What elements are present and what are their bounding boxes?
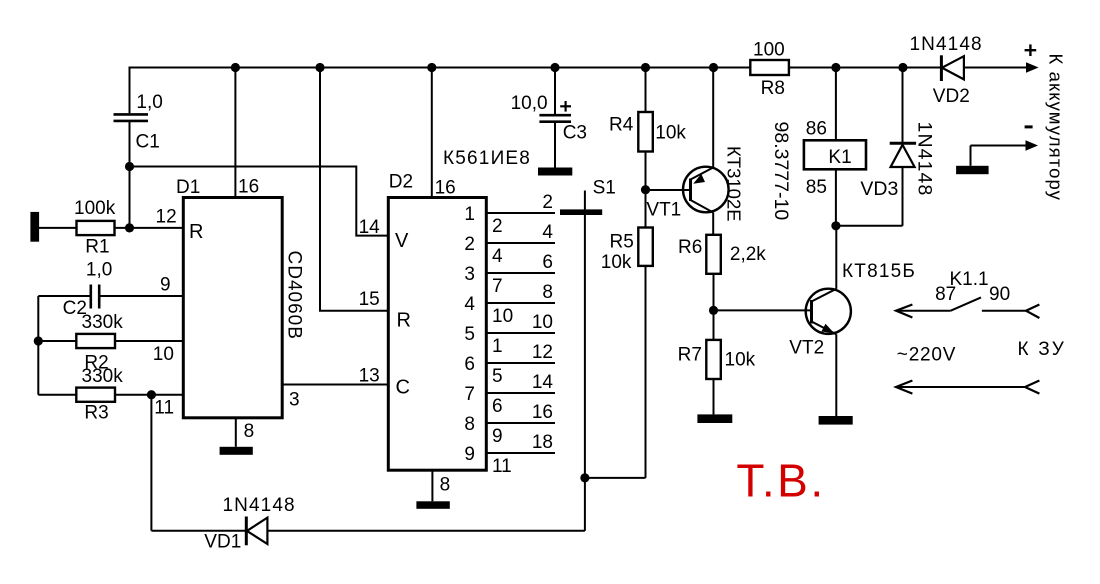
svg-text:S1: S1 bbox=[593, 178, 616, 199]
resistor R1 bbox=[74, 198, 116, 258]
node rail R4 bbox=[641, 63, 650, 72]
svg-text:R: R bbox=[397, 310, 411, 332]
resistor R5 bbox=[601, 228, 653, 478]
svg-text:8: 8 bbox=[440, 475, 451, 496]
wire top power rail bbox=[129, 67, 942, 69]
svg-text:10,0: 10,0 bbox=[511, 93, 548, 114]
resistor R7 bbox=[678, 340, 756, 415]
node rail C3 bbox=[550, 63, 559, 72]
svg-text:13: 13 bbox=[359, 366, 380, 387]
svg-text:10k: 10k bbox=[601, 252, 632, 273]
svg-text:VT2: VT2 bbox=[789, 338, 824, 359]
ground C3 bbox=[538, 168, 572, 176]
svg-text:КТ3102Е: КТ3102Е bbox=[724, 146, 745, 222]
node C1 bottom junction bbox=[125, 162, 134, 171]
svg-text:8: 8 bbox=[464, 414, 475, 435]
resistor R6 bbox=[678, 235, 766, 340]
svg-text:1: 1 bbox=[492, 336, 503, 357]
ground D1 pin 8 bbox=[220, 447, 253, 455]
resistor R4 bbox=[609, 68, 686, 228]
svg-text:1N4148: 1N4148 bbox=[910, 34, 983, 55]
svg-text:V: V bbox=[395, 230, 409, 252]
wire pin 11 down to VD1 bbox=[150, 395, 152, 531]
capacitor C3 bbox=[511, 68, 587, 168]
wire C1 junction to D2 pin 14 bbox=[130, 167, 389, 236]
svg-text:1: 1 bbox=[464, 204, 475, 225]
svg-text:2,2k: 2,2k bbox=[730, 244, 766, 265]
ground D2 pin 8 bbox=[416, 501, 449, 509]
output 2 pin 4 bbox=[486, 242, 555, 244]
wire D2 pin 16 bbox=[431, 68, 433, 198]
svg-text:9: 9 bbox=[464, 444, 475, 465]
svg-text:3: 3 bbox=[464, 264, 475, 285]
svg-text:D2: D2 bbox=[389, 172, 413, 193]
svg-text:4: 4 bbox=[492, 246, 503, 267]
node rail pin16 D2 bbox=[427, 63, 436, 72]
svg-text:14: 14 bbox=[532, 372, 554, 393]
wire rail to D2 pin 15 bbox=[320, 68, 388, 311]
output 1 pin 2 bbox=[486, 212, 555, 214]
output 3 pin 7 bbox=[486, 272, 555, 274]
svg-text:12: 12 bbox=[156, 207, 177, 228]
svg-text:C: C bbox=[396, 377, 410, 399]
svg-text:3: 3 bbox=[289, 390, 300, 411]
svg-text:7: 7 bbox=[492, 276, 503, 297]
node R1 junction bbox=[125, 223, 134, 232]
node rail VD3 bbox=[898, 63, 907, 72]
node rail K1 bbox=[831, 63, 840, 72]
svg-text:2: 2 bbox=[464, 234, 475, 255]
svg-text:15: 15 bbox=[359, 289, 380, 310]
svg-text:C1: C1 bbox=[136, 132, 160, 153]
svg-text:9: 9 bbox=[492, 426, 503, 447]
output 5 pin 1 bbox=[486, 332, 555, 334]
diode VD3 bbox=[860, 68, 935, 226]
wire D1 pin 16 bbox=[234, 68, 236, 197]
node R6 R7 VT2 base junction bbox=[709, 306, 718, 315]
svg-text:VD2: VD2 bbox=[933, 86, 970, 107]
diode VD2 bbox=[910, 34, 983, 107]
svg-text:85: 85 bbox=[806, 177, 827, 198]
svg-text:10k: 10k bbox=[725, 350, 756, 371]
output 4 pin 10 bbox=[486, 302, 555, 304]
wire D1 pin 3 to D2 pin 13 bbox=[282, 384, 388, 386]
svg-text:1N4148: 1N4148 bbox=[223, 495, 296, 516]
svg-text:КТ815Б: КТ815Б bbox=[842, 261, 916, 282]
wire to VT2 base bbox=[714, 309, 812, 311]
svg-text:8: 8 bbox=[542, 282, 553, 303]
svg-text:~220V: ~220V bbox=[897, 345, 956, 366]
svg-text:R4: R4 bbox=[609, 115, 634, 136]
svg-text:R: R bbox=[189, 221, 203, 243]
svg-text:330k: 330k bbox=[82, 312, 124, 333]
output 8 pin 9 bbox=[486, 422, 555, 424]
svg-text:Т.В.: Т.В. bbox=[736, 455, 825, 507]
svg-text:K1: K1 bbox=[828, 147, 851, 168]
node S1 bottom junction bbox=[580, 473, 589, 482]
wire terminal to R1 bbox=[39, 227, 77, 229]
resistor R3 bbox=[38, 366, 183, 424]
svg-text:90: 90 bbox=[989, 284, 1010, 305]
svg-text:14: 14 bbox=[359, 217, 381, 238]
ground R7 bbox=[697, 414, 732, 423]
svg-text:R7: R7 bbox=[678, 345, 702, 366]
svg-text:C3: C3 bbox=[563, 123, 587, 144]
svg-text:18: 18 bbox=[532, 432, 553, 453]
svg-text:CD4060B: CD4060B bbox=[284, 251, 305, 340]
svg-text:98.3777-10: 98.3777-10 bbox=[770, 122, 792, 221]
node K1 VD3 collector junction bbox=[831, 221, 840, 230]
svg-text:16: 16 bbox=[238, 177, 259, 198]
IC D2 K561IE8 bbox=[359, 148, 531, 470]
diode VD1 bbox=[151, 495, 585, 553]
svg-text:10: 10 bbox=[532, 312, 553, 333]
wire S1 junction to R5 bottom bbox=[585, 477, 646, 479]
svg-text:16: 16 bbox=[532, 402, 553, 423]
svg-text:К аккумулятору: К аккумулятору bbox=[1046, 54, 1067, 202]
svg-text:VD3: VD3 bbox=[860, 178, 898, 200]
output 6 pin 5 bbox=[486, 362, 555, 364]
wire D2 pin 8 bbox=[431, 470, 433, 501]
wire S1 junction down to bottom wire bbox=[584, 478, 586, 531]
wire K1 junction to VD3 bbox=[836, 225, 903, 227]
svg-text:К561ИЕ8: К561ИЕ8 bbox=[443, 148, 531, 169]
D2 output ladder lines with pin numbers and hour labels bbox=[464, 192, 555, 477]
transistor VT1 KT3102E bbox=[646, 68, 745, 235]
node rail R-pin riser bbox=[315, 63, 324, 72]
ground VT2 emitter bbox=[819, 416, 853, 425]
svg-text:8: 8 bbox=[244, 421, 255, 442]
IC D1 CD4060B bbox=[153, 177, 305, 419]
svg-text:5: 5 bbox=[464, 324, 475, 345]
svg-text:86: 86 bbox=[806, 119, 827, 140]
svg-text:10: 10 bbox=[492, 306, 513, 327]
svg-text:100k: 100k bbox=[74, 198, 116, 219]
wire rail after VD2 bbox=[964, 67, 1026, 69]
svg-text:R3: R3 bbox=[84, 403, 108, 424]
svg-text:1,0: 1,0 bbox=[136, 92, 162, 113]
svg-text:D1: D1 bbox=[176, 177, 200, 198]
output 7 pin 6 bbox=[486, 392, 555, 394]
svg-text:1N4148: 1N4148 bbox=[914, 122, 936, 197]
svg-text:VD1: VD1 bbox=[204, 532, 241, 553]
svg-text:6: 6 bbox=[492, 396, 503, 417]
svg-text:4: 4 bbox=[464, 294, 475, 315]
svg-text:5: 5 bbox=[492, 366, 503, 387]
node R4 R5 base junction bbox=[641, 185, 650, 194]
svg-text:10: 10 bbox=[153, 344, 174, 365]
svg-text:VT1: VT1 bbox=[646, 200, 681, 221]
svg-text:2: 2 bbox=[542, 192, 553, 213]
relay contacts K1.1 bbox=[896, 269, 1039, 318]
svg-text:R6: R6 bbox=[678, 237, 702, 258]
node rail pin16 D1 bbox=[231, 63, 240, 72]
transistor VT2 KT815B bbox=[789, 226, 916, 416]
svg-text:6: 6 bbox=[542, 252, 553, 273]
battery plus output bbox=[1025, 44, 1067, 201]
resistor R8 bbox=[750, 40, 789, 100]
svg-text:2: 2 bbox=[492, 216, 503, 237]
svg-text:11: 11 bbox=[154, 398, 174, 419]
wire R1 to D1 pin 12 bbox=[115, 227, 184, 229]
svg-text:87: 87 bbox=[935, 284, 956, 305]
svg-text:R1: R1 bbox=[85, 237, 109, 258]
svg-text:16: 16 bbox=[435, 178, 456, 199]
svg-text:R8: R8 bbox=[761, 78, 785, 99]
output 9 pin 11 bbox=[486, 452, 555, 454]
switch S1 bbox=[560, 178, 616, 478]
svg-text:330k: 330k bbox=[82, 366, 124, 387]
wire left feedback loop bbox=[37, 296, 39, 395]
svg-text:6: 6 bbox=[464, 354, 475, 375]
svg-text:R5: R5 bbox=[610, 232, 634, 253]
svg-text:10k: 10k bbox=[655, 123, 686, 144]
svg-text:9: 9 bbox=[160, 275, 171, 296]
svg-text:4: 4 bbox=[542, 222, 553, 243]
capacitor C2 bbox=[38, 260, 183, 320]
node rail VT1 collector bbox=[709, 63, 718, 72]
svg-text:11: 11 bbox=[492, 456, 512, 477]
svg-text:12: 12 bbox=[532, 342, 553, 363]
svg-text:К ЗУ: К ЗУ bbox=[1018, 339, 1066, 360]
svg-text:1,0: 1,0 bbox=[86, 260, 112, 281]
input terminal bbox=[30, 212, 39, 242]
mains 220V line bbox=[896, 339, 1066, 394]
node pin 11 junction bbox=[147, 390, 156, 399]
svg-text:100: 100 bbox=[753, 40, 785, 61]
battery minus output bbox=[956, 127, 1038, 174]
wire D1 pin 8 bbox=[235, 418, 237, 447]
resistor R2 bbox=[38, 312, 183, 374]
svg-text:7: 7 bbox=[464, 384, 475, 405]
node left loop R2 junction bbox=[34, 336, 43, 345]
relay K1 coil bbox=[770, 68, 866, 226]
capacitor C1 bbox=[114, 68, 163, 228]
